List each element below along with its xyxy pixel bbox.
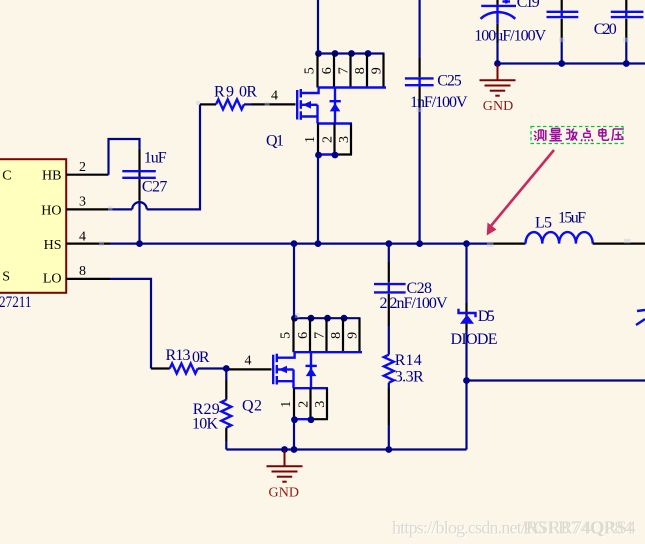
inductor L5 15uF [526, 210, 593, 244]
svg-text:HS: HS [44, 238, 62, 253]
wire R14 to bottom rail [388, 383, 390, 450]
wire C28 to R14 [388, 284, 390, 355]
svg-text:R9: R9 [214, 84, 234, 101]
wire Q2 source to bottom ground rail [293, 420, 295, 450]
svg-text:C19: C19 [517, 0, 540, 11]
wire LO pin to R13 [110, 279, 151, 369]
capacitor C20 [547, 0, 617, 64]
svg-text:100uF/100V: 100uF/100V [474, 27, 546, 44]
resistor R13 0R [151, 347, 226, 374]
wire top edge to Q1 drain boxes [317, 0, 319, 54]
wire/pin R9 to Q1 gate, pin number 4 [252, 89, 296, 105]
IC U? (27211 driver) body [0, 159, 66, 293]
svg-text:R13: R13 [166, 347, 191, 364]
wire HS node to L5 [467, 243, 526, 245]
resistor R14 3.3R [384, 352, 424, 386]
annotation hanzi strokes 测量改点电压 [534, 128, 624, 141]
svg-text:R14: R14 [395, 352, 422, 369]
svg-text:1uF: 1uF [144, 149, 167, 166]
IC part number 27211 [0, 294, 32, 311]
capacitor C25 1nF/100V [405, 0, 468, 244]
svg-text:0R: 0R [239, 84, 257, 101]
svg-text:10K: 10K [192, 416, 218, 433]
svg-text:D5: D5 [478, 308, 495, 325]
IC pin HS (4) [44, 229, 110, 253]
svg-text:4: 4 [79, 229, 86, 244]
svg-text:C: C [2, 169, 11, 184]
svg-text:4: 4 [271, 89, 278, 104]
wire Q1 source to HS node [317, 155, 319, 244]
svg-text:Q2: Q2 [242, 398, 262, 415]
capacitor C27 pins [138, 149, 140, 201]
svg-text:GND: GND [269, 486, 300, 501]
capacitor C27 [122, 149, 167, 195]
svg-text:Q1: Q1 [266, 133, 284, 150]
partial symbol at right edge [636, 310, 645, 325]
svg-text:LO: LO [43, 271, 62, 286]
svg-text:15uF: 15uF [558, 210, 586, 227]
capacitor C28 2.2nF/100V [374, 280, 448, 312]
svg-text:3.3R: 3.3R [395, 369, 424, 386]
svg-text:S: S [2, 270, 10, 285]
diode D5 (schottky) [451, 308, 498, 348]
svg-text:27211: 27211 [0, 294, 32, 311]
svg-text:4: 4 [245, 353, 252, 368]
wire D5 node to right edge [467, 379, 645, 381]
svg-text:GND: GND [483, 99, 514, 114]
svg-text:0R: 0R [192, 349, 210, 366]
faint pin-end grid marks [99, 38, 631, 318]
IC pin HO (3) [41, 195, 110, 219]
IC pin LO (8) [43, 264, 110, 286]
svg-text:https://blog.csdn.net/: https://blog.csdn.net/ [392, 518, 526, 538]
annotation text box 测量改点电压 [531, 127, 623, 144]
transistor Q1 [266, 50, 386, 158]
wire C27 bottom to HS node [138, 201, 140, 244]
capacitor (right, unlabeled) [611, 0, 644, 64]
IC pin HB (2) [42, 160, 108, 184]
svg-text:C25: C25 [437, 72, 462, 89]
wire pin2 to C27 top [109, 139, 140, 175]
resistor R29 10K [192, 369, 231, 450]
svg-text:HB: HB [42, 169, 61, 184]
ground symbol GND (top) [480, 60, 516, 114]
svg-text:C20: C20 [594, 21, 617, 38]
svg-text:PGFB74QP84: PGFB74QP84 [523, 518, 633, 538]
svg-text:DIODE: DIODE [451, 331, 498, 348]
wire L5 to right edge [593, 243, 645, 245]
watermark [392, 518, 637, 539]
diode D5 branch wire [463, 244, 470, 450]
svg-text:3: 3 [79, 195, 86, 210]
svg-text:HO: HO [41, 203, 61, 218]
top-right rail wire [498, 60, 645, 67]
svg-text:L5: L5 [535, 215, 552, 232]
wire HO with hop over C27 [110, 104, 200, 209]
svg-text:8: 8 [79, 264, 86, 279]
resistor R9 0R [200, 84, 257, 110]
bottom ground rail wire [226, 446, 466, 453]
wire/pin R13 to Q2 gate, pin number 4 [223, 353, 272, 372]
svg-text:2: 2 [79, 160, 86, 175]
node HS horizontal wire [110, 240, 470, 247]
annotation arrow (measure point) [487, 150, 554, 236]
svg-text:C27: C27 [142, 178, 168, 195]
wire HS node to C28 [388, 244, 390, 283]
capacitor C19 100uF/100V (polarized) [474, 0, 546, 64]
ground symbol GND (bottom) [267, 451, 303, 501]
transistor Q2 [242, 315, 362, 423]
IC left-side pin names (cut off): C and S [2, 169, 11, 285]
wire HS node down to Q2 drain boxes [293, 244, 295, 319]
